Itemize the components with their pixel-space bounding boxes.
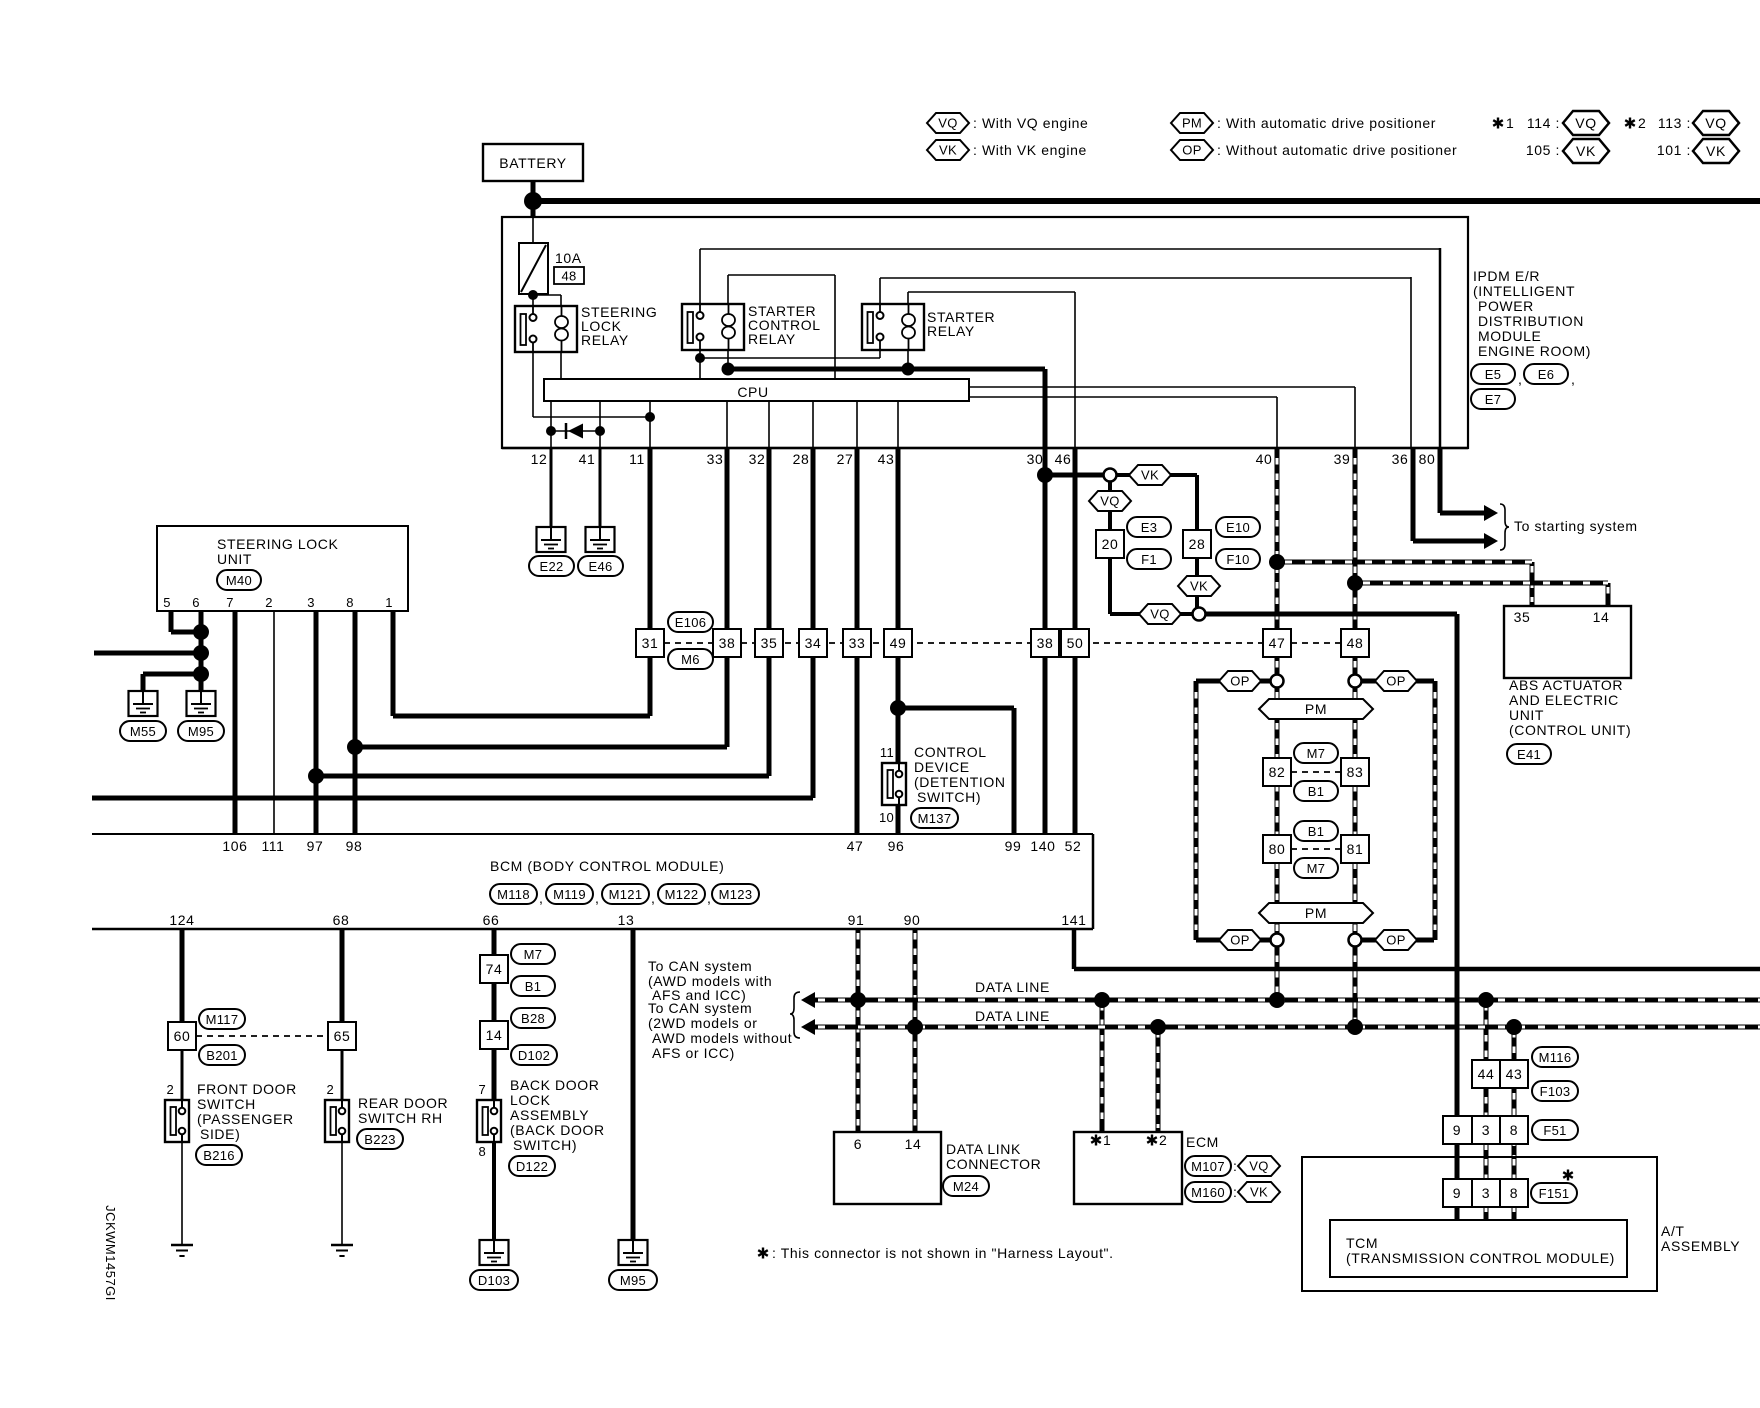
connector box 74 [480, 955, 508, 983]
OP hexagon bottom right [1375, 930, 1417, 950]
connector box 14 [480, 1021, 508, 1049]
junction pin 3 wire [308, 768, 324, 784]
svg-text:60: 60 [174, 1028, 191, 1044]
svg-text:AWD models without: AWD models without [652, 1030, 792, 1046]
svg-text:To CAN system: To CAN system [648, 1000, 752, 1016]
BCM box bottom edge [92, 928, 1093, 931]
wire relay coil bus to IPDM pin 30 [728, 367, 1045, 372]
connector M7 lower [1294, 858, 1338, 878]
svg-text:B216: B216 [203, 1148, 235, 1163]
junction data line 1 / ECM *1 [1094, 992, 1110, 1008]
connector F103 [1532, 1081, 1578, 1101]
CPU box [544, 379, 969, 401]
connector row box 49 [884, 629, 912, 657]
wire steering lock unit pin 6 to ground M95 [199, 611, 204, 691]
svg-text:,: , [595, 890, 600, 906]
svg-text:PM: PM [1305, 905, 1327, 921]
svg-text:,: , [651, 890, 656, 906]
junction data line 2 / connector 48 chain [1347, 1019, 1363, 1035]
svg-text:ASSEMBLY: ASSEMBLY [510, 1107, 589, 1123]
svg-text:STEERING LOCK: STEERING LOCK [217, 536, 338, 552]
connector boxes 9 3 8 F151 [1443, 1170, 1577, 1208]
svg-text:(INTELLIGENT: (INTELLIGENT [1473, 283, 1575, 299]
svg-text:M116: M116 [1539, 1050, 1572, 1065]
svg-text:33: 33 [707, 451, 724, 467]
junction data line 1 / BCM 91 [850, 992, 866, 1008]
connector B1 back door [511, 976, 555, 996]
svg-text:TCM: TCM [1346, 1235, 1378, 1251]
svg-text:140: 140 [1030, 838, 1055, 854]
legend 105:VK [1526, 139, 1609, 163]
svg-text:36: 36 [1392, 451, 1409, 467]
ground D103 [470, 1240, 518, 1290]
svg-text:1: 1 [1103, 1132, 1111, 1148]
connector row box 47 [1263, 629, 1291, 657]
connector box 28 [1183, 530, 1211, 558]
svg-text:5: 5 [163, 595, 171, 610]
svg-text:10: 10 [879, 810, 894, 825]
svg-text:VQ: VQ [1150, 607, 1169, 622]
connector M107 : VQ [1185, 1156, 1280, 1176]
svg-text:M117: M117 [206, 1012, 239, 1027]
junction starter relay coil [902, 363, 915, 376]
svg-text:VQ: VQ [1575, 115, 1596, 131]
svg-text:(PASSENGER: (PASSENGER [197, 1111, 294, 1127]
svg-text:OP: OP [1182, 143, 1201, 158]
wire CAN dashed: data line 1 through connectors 44/3/3 to TCM [1484, 1000, 1489, 1220]
brace CAN system [790, 992, 800, 1038]
data link connector box [834, 1132, 1041, 1204]
svg-text:(TRANSMISSION CONTROL MODULE): (TRANSMISSION CONTROL MODULE) [1346, 1250, 1615, 1266]
wire starter control relay contact bottom [699, 349, 701, 380]
wire starter control relay coil bottom [727, 349, 729, 369]
wire BCM pin 66 to back door lock assembly [492, 929, 497, 1100]
svg-text:M122: M122 [665, 887, 699, 902]
svg-text:43: 43 [1506, 1066, 1523, 1082]
legend note *1 [1493, 115, 1514, 131]
connector M118 [490, 884, 544, 906]
svg-text:8: 8 [1510, 1122, 1518, 1138]
relay: starter control relay [682, 303, 821, 350]
ECM box [1074, 1132, 1219, 1204]
svg-text:DATA LINK: DATA LINK [946, 1141, 1021, 1157]
svg-text:(BACK DOOR: (BACK DOOR [510, 1122, 605, 1138]
svg-text:,: , [539, 890, 544, 906]
svg-text:B28: B28 [521, 1011, 545, 1026]
wire CAN dashed: data line 1 to ECM pin *1 [1100, 1000, 1105, 1132]
node OP merge right [1349, 934, 1362, 947]
arrow to CAN system 2 [801, 1019, 815, 1035]
svg-text:BATTERY: BATTERY [499, 155, 567, 171]
connector B201 [199, 1045, 245, 1065]
svg-text:M121: M121 [609, 887, 643, 902]
connector M6 [668, 649, 713, 669]
svg-text:To starting system: To starting system [1514, 518, 1638, 534]
svg-text:50: 50 [1067, 635, 1084, 651]
svg-text:14: 14 [905, 1136, 922, 1152]
wire IPDM pin 43 to detention switch and BCM pin 96 [896, 448, 901, 834]
svg-text:M95: M95 [620, 1273, 646, 1288]
wire dashed link 60-65 [196, 1035, 328, 1037]
connector M122 [658, 884, 712, 906]
wire steering lock unit pin 8 to BCM pin 98 [353, 611, 358, 834]
wire CAN dashed: data line 2 through connectors 43/8/8 to TCM [1512, 1027, 1517, 1220]
svg-text:48: 48 [1347, 635, 1364, 651]
wire connector 20 down to VQ merge [1108, 558, 1112, 614]
svg-text:M7: M7 [524, 947, 543, 962]
OP hexagon top right [1375, 671, 1417, 691]
svg-text:28: 28 [793, 451, 810, 467]
node OP split left [1271, 675, 1284, 688]
junction data line 2 / connector 43 [1506, 1019, 1522, 1035]
wire dashed link 80-81 [1291, 848, 1341, 850]
junction starter control contact [695, 353, 705, 363]
svg-text:2: 2 [1638, 115, 1646, 131]
asterisk note [758, 1245, 1113, 1261]
svg-text:1: 1 [1506, 115, 1514, 131]
connector M117 [199, 1009, 245, 1029]
node VQ/VK merge [1193, 608, 1206, 621]
svg-text:114 :: 114 : [1527, 115, 1560, 131]
svg-text:B1: B1 [1308, 824, 1325, 839]
connector box 81 [1341, 835, 1369, 863]
svg-text:E3: E3 [1141, 520, 1158, 535]
svg-text:,: , [1571, 371, 1576, 387]
wire CAN dashed: connector 48 down through PM ladder to data line 2 [1353, 657, 1358, 1027]
wire diode link 12-41 [551, 430, 600, 432]
wire starter control relay coil top to CPU [727, 275, 729, 306]
svg-text:10A: 10A [555, 250, 582, 266]
connector E41 [1507, 744, 1551, 764]
svg-text:38: 38 [1037, 635, 1054, 651]
connector M7 [1294, 743, 1338, 763]
connector E106 [668, 612, 713, 632]
svg-text:113 :: 113 : [1658, 115, 1691, 131]
wire IPDM pin 30 to BCM pin 140 [1043, 369, 1048, 834]
svg-text:2: 2 [326, 1082, 334, 1097]
svg-text:M7: M7 [1307, 746, 1326, 761]
svg-text:27: 27 [837, 451, 854, 467]
VK hexagon upper [1129, 465, 1171, 485]
ground E22 [529, 527, 574, 576]
svg-text:111: 111 [261, 838, 284, 854]
svg-text:141: 141 [1061, 912, 1086, 928]
wires inside A/T assembly [1455, 1157, 1460, 1220]
wire BCM pin 141 to right edge [1072, 929, 1077, 969]
IPDM E/R box outline [502, 217, 1468, 448]
ABS actuator box [1504, 606, 1631, 678]
svg-text:AFS or ICC): AFS or ICC) [652, 1045, 735, 1061]
wire CAN dashed horizontal to ABS pin 14 [1355, 581, 1608, 586]
wire IPDM pin 46 to BCM pin 52 [1073, 448, 1078, 834]
BCM pin labels bottom [169, 912, 1086, 928]
connector M121 [602, 884, 656, 906]
svg-text:VK: VK [1706, 143, 1726, 159]
wire starter control relay contact to IPDM pin 80 [699, 249, 701, 306]
svg-text:To CAN system: To CAN system [648, 958, 752, 974]
svg-text:M160: M160 [1191, 1185, 1225, 1200]
wire CAN dashed: data line 2 to ECM pin *2 [1156, 1027, 1161, 1132]
svg-text:: With automatic drive positio: : With automatic drive positioner [1217, 115, 1436, 131]
wire battery to fuse [532, 218, 534, 243]
svg-text:66: 66 [483, 912, 500, 928]
connector box 80 [1263, 835, 1291, 863]
OP hexagon top left [1219, 671, 1261, 691]
svg-text:SWITCH: SWITCH [197, 1096, 256, 1112]
svg-text:8: 8 [346, 595, 354, 610]
svg-text:M7: M7 [1307, 861, 1326, 876]
junction data line 2 / ECM *2 [1150, 1019, 1166, 1035]
svg-text:SIDE): SIDE) [200, 1126, 240, 1142]
wire node to BCM pin 99 [898, 706, 1014, 711]
arrow to CAN system 1 [801, 992, 815, 1008]
svg-text:99: 99 [1005, 838, 1022, 854]
connector row box 50 [1061, 629, 1089, 657]
wire steering lock unit pin 7 to BCM pin 106 [233, 611, 238, 834]
svg-text:81: 81 [1347, 841, 1364, 857]
IPDM E/R label [1473, 268, 1591, 359]
VQ hexagon lower [1139, 604, 1181, 624]
svg-text:PM: PM [1305, 701, 1327, 717]
junction data line 1 / connector 47 chain [1269, 992, 1285, 1008]
svg-text:41: 41 [579, 451, 596, 467]
wire starter relay coil bottom [907, 349, 909, 369]
legend: VQ hexagon flag [927, 113, 1088, 133]
junction SLU pin 6 grounds [193, 666, 209, 682]
svg-text:VQ: VQ [1249, 1159, 1268, 1174]
svg-text:VQ: VQ [1705, 115, 1726, 131]
wire CAN dashed: BCM pin 91 to data line 1 and data link connector pin 6 [856, 929, 861, 1132]
svg-text:3: 3 [307, 595, 315, 610]
svg-text:A/T: A/T [1661, 1223, 1685, 1239]
svg-text:POWER: POWER [1478, 298, 1534, 314]
BCM pin labels top [222, 838, 1081, 854]
svg-text:11: 11 [880, 745, 894, 760]
legend note *2 [1625, 115, 1646, 131]
svg-text:52: 52 [1065, 838, 1082, 854]
wire IPDM pin 27 to BCM pin 47 [855, 448, 860, 834]
svg-text:DEVICE: DEVICE [914, 759, 970, 775]
svg-text:D103: D103 [478, 1273, 510, 1288]
connector row box 35 [755, 629, 783, 657]
connector box 65 [328, 1022, 356, 1050]
svg-text:OP: OP [1230, 674, 1249, 689]
svg-text:VQ: VQ [1100, 494, 1119, 509]
svg-text:30: 30 [1027, 451, 1044, 467]
brace to starting system [1500, 504, 1509, 550]
svg-text:PM: PM [1182, 116, 1202, 131]
junction pin 8 wire [347, 739, 363, 755]
svg-text:BCM (BODY CONTROL MODULE): BCM (BODY CONTROL MODULE) [490, 858, 724, 874]
svg-text:68: 68 [333, 912, 350, 928]
PM flag bottom [1259, 903, 1373, 923]
node OP split right [1349, 675, 1362, 688]
svg-text:32: 32 [749, 451, 766, 467]
BCM box top edge [92, 833, 1093, 835]
ground below front door switch [171, 1245, 193, 1256]
junction data line 2 / BCM 90 [907, 1019, 923, 1035]
svg-text:F151: F151 [1539, 1186, 1570, 1201]
svg-text:E41: E41 [1517, 747, 1541, 762]
connector M7 back door [511, 944, 555, 964]
svg-text:11: 11 [629, 451, 645, 467]
svg-text:(2WD models or: (2WD models or [648, 1015, 758, 1031]
connector E3 [1127, 517, 1171, 537]
svg-text:80: 80 [1419, 451, 1436, 467]
wire IPDM pin 33 to steering lock unit pin 8 [725, 448, 730, 747]
wire battery bus [533, 198, 1760, 204]
svg-text:E6: E6 [1538, 367, 1555, 382]
wire BCM pin 124 to front door switch [180, 929, 185, 1022]
svg-text:46: 46 [1055, 451, 1072, 467]
connector row box 33 [843, 629, 871, 657]
connector E10 [1216, 517, 1260, 537]
svg-text:35: 35 [1514, 609, 1531, 625]
svg-text:34: 34 [805, 635, 822, 651]
svg-text:E106: E106 [675, 615, 707, 630]
svg-text:E22: E22 [539, 559, 563, 574]
svg-text:13: 13 [618, 912, 635, 928]
connector M119 [546, 884, 600, 906]
svg-text:M107: M107 [1191, 1159, 1225, 1174]
connector box 83 [1341, 758, 1369, 786]
relay: starter relay [862, 304, 995, 350]
connector row box 31 [636, 629, 664, 657]
wire off-page left to node 6 [94, 651, 201, 656]
A/T assembly box [1302, 1157, 1657, 1291]
svg-text:VK: VK [1250, 1185, 1268, 1200]
wire IPDM pin 80 to starting system [1438, 448, 1443, 513]
svg-text:BACK DOOR: BACK DOOR [510, 1077, 599, 1093]
svg-text:,: , [1518, 371, 1523, 387]
wire BCM pin 68 to rear door switch [340, 929, 345, 1022]
ground below rear door switch [331, 1245, 353, 1256]
wire IPDM pin 12 to ground E22 [550, 448, 553, 527]
svg-text:SWITCH): SWITCH) [917, 789, 981, 805]
connector M123 [712, 884, 759, 904]
svg-text:(DETENTION: (DETENTION [914, 774, 1006, 790]
control device detention switch [879, 744, 1006, 828]
wire CPU to IPDM pin 39 [969, 386, 1355, 388]
svg-text:74: 74 [486, 961, 503, 977]
svg-text:DISTRIBUTION: DISTRIBUTION [1478, 313, 1584, 329]
junction CAN 40 to ABS [1269, 554, 1285, 570]
svg-text:: Without automatic drive posi: : Without automatic drive positioner [1217, 142, 1457, 158]
wire data line 1 (dashed bus) [814, 998, 1760, 1003]
connector E6 [1524, 364, 1576, 387]
wire dashed link connector row [664, 642, 1262, 644]
legend: OP hexagon flag [1171, 140, 1457, 160]
svg-text:ABS ACTUATOR: ABS ACTUATOR [1509, 677, 1623, 693]
svg-text:E5: E5 [1485, 367, 1502, 382]
svg-text:12: 12 [531, 451, 548, 467]
svg-text:98: 98 [346, 838, 363, 854]
svg-text:MODULE: MODULE [1478, 328, 1542, 344]
svg-text:33: 33 [849, 635, 866, 651]
junction diode left [546, 426, 556, 436]
svg-text:65: 65 [334, 1028, 351, 1044]
junction pin 30 branch [1037, 467, 1053, 483]
svg-text:E46: E46 [588, 559, 612, 574]
svg-text:RELAY: RELAY [748, 331, 796, 347]
svg-text:OP: OP [1386, 933, 1405, 948]
svg-text:97: 97 [307, 838, 324, 854]
svg-text:40: 40 [1256, 451, 1273, 467]
svg-text:: With VQ engine: : With VQ engine [973, 115, 1088, 131]
wire IPDM pin 36 to starting system [1411, 448, 1416, 541]
junction relay contact to pin 11 [645, 412, 655, 422]
svg-text:RELAY: RELAY [927, 323, 975, 339]
ground M55 [120, 691, 166, 741]
svg-text:E10: E10 [1226, 520, 1250, 535]
svg-text:VK: VK [939, 143, 957, 158]
junction diode right [595, 426, 605, 436]
connector M160 : VK [1185, 1182, 1280, 1202]
svg-text:VQ: VQ [938, 116, 957, 131]
wire OP bypass right vertical [1433, 681, 1438, 940]
junction SLU pin 6 offpage [193, 645, 209, 661]
svg-text:OP: OP [1230, 933, 1249, 948]
legend: VK hexagon flag [927, 140, 1087, 160]
svg-text:B1: B1 [1308, 784, 1325, 799]
svg-text:90: 90 [904, 912, 921, 928]
legend 101:VK [1657, 139, 1739, 163]
svg-text:3: 3 [1482, 1185, 1490, 1201]
legend 113:VQ [1658, 111, 1739, 135]
connector B1 [1294, 781, 1338, 801]
connector box 60 [168, 1022, 196, 1050]
wire CAN dashed horizontal to ABS pin 35 [1277, 560, 1532, 565]
svg-text:F10: F10 [1226, 552, 1249, 567]
svg-text:39: 39 [1334, 451, 1351, 467]
ground M95 [178, 691, 224, 741]
svg-text:106: 106 [222, 838, 247, 854]
VQ hexagon upper [1089, 491, 1131, 511]
svg-text:VK: VK [1141, 468, 1159, 483]
wire IPDM pin 28 off-page left [811, 448, 816, 798]
svg-text:47: 47 [1269, 635, 1286, 651]
svg-text:: With VK engine: : With VK engine [973, 142, 1087, 158]
svg-text:VK: VK [1190, 579, 1208, 594]
svg-text:2: 2 [1159, 1132, 1167, 1148]
svg-text:UNIT: UNIT [1509, 707, 1544, 723]
wire CAN dashed to ABS pin 14 [1606, 583, 1611, 606]
svg-text:(CONTROL UNIT): (CONTROL UNIT) [1509, 722, 1631, 738]
svg-text:ENGINE ROOM): ENGINE ROOM) [1478, 343, 1591, 359]
wire steering lock relay contact to node [532, 351, 534, 417]
svg-text:91: 91 [848, 912, 865, 928]
wire steering lock relay coil to CPU [560, 351, 562, 380]
BCM box right edge [1092, 834, 1095, 929]
relay: steering lock relay [515, 304, 657, 352]
junction starter control coil [722, 363, 735, 376]
wire OP bypass left vertical [1194, 681, 1199, 940]
svg-text:35: 35 [761, 635, 778, 651]
svg-text:49: 49 [890, 635, 907, 651]
svg-text:101 :: 101 : [1657, 142, 1691, 158]
svg-text:7: 7 [478, 1082, 486, 1097]
svg-text:6: 6 [854, 1136, 862, 1152]
wire dashed link 82-83 [1291, 771, 1341, 773]
svg-text:82: 82 [1269, 764, 1286, 780]
svg-text:JCKWM1457GI: JCKWM1457GI [103, 1205, 118, 1301]
back door switch [477, 1077, 605, 1176]
PM flag top [1259, 699, 1373, 719]
wire merge circle to TCM chain [1205, 612, 1457, 617]
legend: PM hexagon flag [1171, 113, 1436, 133]
wire IPDM pin 11 to steering lock unit pin 1 [648, 448, 653, 716]
svg-text:6: 6 [192, 595, 200, 610]
